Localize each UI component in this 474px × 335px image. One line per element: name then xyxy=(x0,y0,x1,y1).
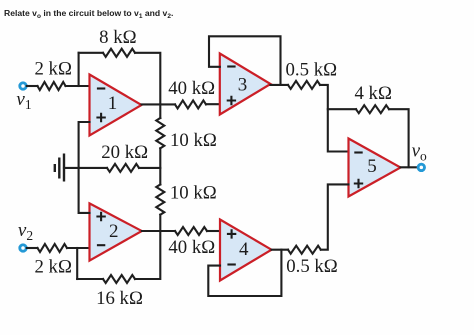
title text xyxy=(4,8,173,18)
wire lower 10k to op2 output node xyxy=(159,215,161,231)
svg-text:40 kΩ: 40 kΩ xyxy=(168,78,215,99)
wire op1 output node down to upper 10k xyxy=(159,104,161,118)
wire ground to node B junction xyxy=(64,167,79,169)
wire 40k to op4 noninverting input xyxy=(207,230,220,232)
resistor 0.5 kΩ (op3 output) xyxy=(288,81,320,89)
svg-text:20 kΩ: 20 kΩ xyxy=(101,142,148,163)
svg-text:1: 1 xyxy=(108,93,118,114)
resistor 40 kΩ (upper) xyxy=(175,100,206,108)
resistor 0.5 kΩ (op4 output) xyxy=(288,246,321,254)
wire 20k to middle bus xyxy=(139,167,160,169)
svg-text:8 kΩ: 8 kΩ xyxy=(99,27,136,48)
op-amp U1 xyxy=(90,75,142,136)
wire v2 terminal to 2k xyxy=(27,247,38,249)
op-amp U5 xyxy=(349,139,401,197)
wire op4 output to 0.5k xyxy=(272,249,289,251)
wire 2k to op-amp 1 inverting input xyxy=(66,85,90,87)
svg-text:2: 2 xyxy=(109,221,119,242)
wire node A up to 8k level xyxy=(78,53,80,86)
node v2 input terminal xyxy=(20,245,26,251)
svg-text:5: 5 xyxy=(367,156,377,177)
wire upper 10k to 20k node xyxy=(159,148,161,184)
resistor 40 kΩ (lower) xyxy=(175,227,207,235)
svg-text:0.5 kΩ: 0.5 kΩ xyxy=(286,60,338,81)
svg-text:2 kΩ: 2 kΩ xyxy=(34,256,71,277)
wire 4k left lead from op5 inverting node xyxy=(328,108,356,110)
resistor 2 kΩ (v2 input) xyxy=(38,244,68,252)
wire 16k left lead xyxy=(77,278,103,280)
wire op1 noninverting input to ground bus xyxy=(79,122,90,168)
wire 8k left lead xyxy=(79,52,103,54)
resistor 4 kΩ (op5 feedback) xyxy=(356,105,389,113)
svg-text:16 kΩ: 16 kΩ xyxy=(96,288,143,309)
resistor 10 kΩ (upper) xyxy=(156,118,164,148)
wire 0.5k up to op5 noninverting input xyxy=(321,184,349,249)
svg-text:10 kΩ: 10 kΩ xyxy=(170,130,217,151)
op-amp U2 xyxy=(90,203,142,260)
wire op5 output to vo terminal xyxy=(401,166,418,168)
wire 40k to op3 noninverting input xyxy=(206,103,220,105)
wire 4k right lead down to output node xyxy=(389,109,409,167)
svg-text:v1: v1 xyxy=(16,89,31,112)
node vo output terminal xyxy=(418,164,424,170)
node v1 input terminal xyxy=(20,83,26,89)
svg-text:4: 4 xyxy=(239,239,249,260)
svg-text:2 kΩ: 2 kΩ xyxy=(34,58,71,79)
op-amp U4 xyxy=(220,220,272,281)
wire op4 inverting input feedback loop xyxy=(208,250,281,296)
svg-text:40 kΩ: 40 kΩ xyxy=(168,237,215,258)
svg-text:4 kΩ: 4 kΩ xyxy=(354,83,391,104)
wire op3 inverting input feedback loop xyxy=(209,36,281,85)
wire 2k to op2 inverting input xyxy=(67,247,90,249)
wire 0.5k right lead down to op5 inverting input xyxy=(320,85,349,152)
svg-text:vo: vo xyxy=(412,141,427,164)
resistor 8 kΩ (op1 feedback) xyxy=(103,49,135,57)
svg-text:v2: v2 xyxy=(18,220,33,243)
wire 8k right lead down to op1 output node xyxy=(135,53,160,105)
resistor 2 kΩ (v1 input) xyxy=(38,82,66,90)
wire op1 output to 40k xyxy=(142,103,176,105)
wire op2 output to 40k xyxy=(142,230,175,232)
svg-text:0.5 kΩ: 0.5 kΩ xyxy=(286,256,338,277)
svg-text:3: 3 xyxy=(238,75,248,96)
wire node B to 20k xyxy=(79,167,107,169)
wire node C down to 16k level xyxy=(76,248,78,279)
wire op2 noninverting input from ground bus xyxy=(79,168,90,213)
svg-text:10 kΩ: 10 kΩ xyxy=(170,183,217,204)
wire v1 terminal to 2k resistor xyxy=(27,85,38,87)
ground xyxy=(55,154,64,182)
resistor 16 kΩ (op2 feedback) xyxy=(103,275,135,283)
resistor 20 kΩ xyxy=(107,164,139,172)
resistor 10 kΩ (lower) xyxy=(156,185,164,215)
wire op3 output to 0.5k xyxy=(271,84,289,86)
wire 16k right lead up to op2 output node xyxy=(135,231,160,279)
op-amp U3 xyxy=(220,54,271,115)
